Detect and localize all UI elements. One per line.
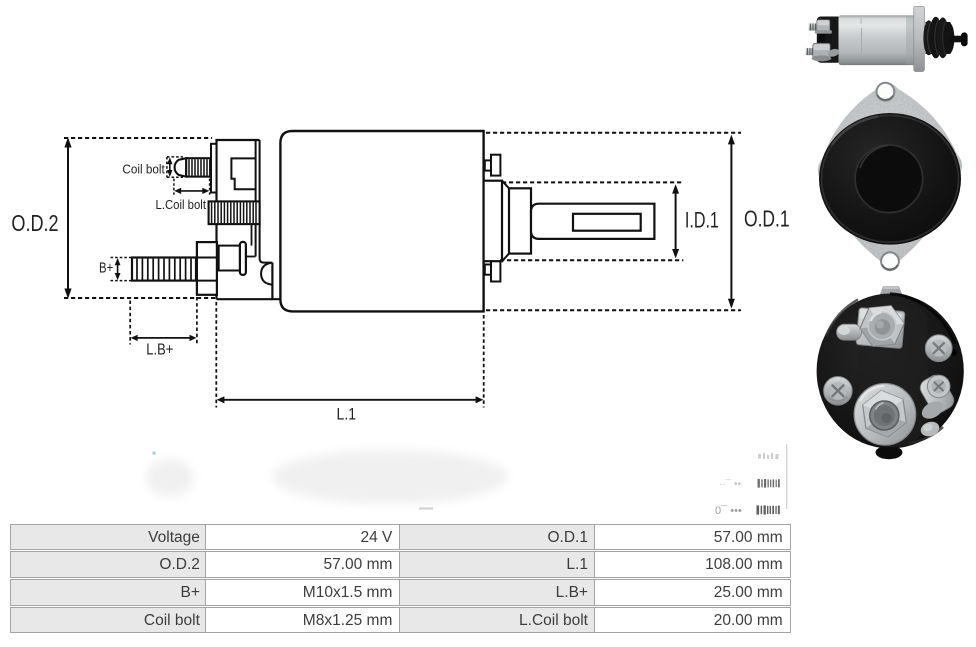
svg-text:0¯ •••: 0¯ ••• <box>715 505 742 517</box>
plunger cup arc <box>261 263 272 285</box>
dimension L.Coil bolt arrow <box>177 190 208 192</box>
photo3 top bolt head <box>868 312 896 340</box>
dimension B+ dashed extension lines <box>111 258 132 281</box>
plate chamfer top <box>502 181 509 189</box>
coil bolt stud shank <box>186 158 211 176</box>
svg-text:O.D.1: O.D.1 <box>744 205 790 231</box>
coil bolt stud nose <box>175 158 187 176</box>
svg-text:I.D.1: I.D.1 <box>685 208 719 233</box>
B+ terminal pin <box>240 242 246 275</box>
plate chamfer bottom <box>502 254 509 262</box>
terminal boss bottom stem <box>485 265 491 275</box>
svg-text:L.B+: L.B+ <box>146 342 173 359</box>
photo3 top bolt hex <box>855 298 908 354</box>
photo3 black round body <box>817 294 964 449</box>
photo3 bracket screw <box>927 375 950 398</box>
svg-text:O.D.2: O.D.2 <box>11 210 58 236</box>
photo3 right bracket <box>917 372 957 416</box>
photo3 washer tab <box>919 398 946 422</box>
spec table row 1 <box>10 524 790 551</box>
plunger cup wall <box>271 263 273 300</box>
photo1 bottom terminal stud <box>806 48 814 55</box>
photo3 top bolt tip <box>880 286 902 294</box>
dimension O.D.1 top dashed line <box>486 132 741 134</box>
svg-text:Coil bolt: Coil bolt <box>122 163 165 177</box>
dimension L.1 arrow <box>220 399 481 401</box>
end cap outer wall with lip <box>260 140 273 263</box>
watermark blue dot <box>153 452 156 455</box>
dimension B+ arrow <box>117 260 119 278</box>
svg-text:L.1: L.1 <box>337 406 357 424</box>
dimension O.D.2 top extension dashed line <box>64 137 212 139</box>
photo2 flange ear hole bottom <box>881 252 899 270</box>
end cap bracket outline <box>217 140 260 299</box>
dimension I.D.1 top dashed line <box>502 181 683 183</box>
spec table row 4 <box>10 607 790 634</box>
L.Coil bolt thread stud <box>209 201 260 224</box>
watermark ghost column line <box>786 444 788 509</box>
dimension L.Coil bolt extension dashed lines <box>174 179 210 195</box>
svg-text:L.Coil bolt: L.Coil bolt <box>156 198 207 212</box>
B+ stud threads <box>137 259 191 280</box>
WATERMARK <box>146 444 787 517</box>
photo1 bottom terminal nut <box>813 43 830 59</box>
watermark faint row 1 marks <box>758 453 779 459</box>
B+ threaded stud <box>132 258 196 281</box>
coil bolt mount tab <box>211 144 217 193</box>
photo3 silver plate behind top bolt <box>856 308 905 349</box>
photo3 bottom bolt washer <box>854 384 916 446</box>
dimension O.D.1 bottom dashed line <box>486 309 741 311</box>
PHOTOS <box>806 6 968 71</box>
photo1 flange <box>914 6 925 71</box>
watermark dash <box>419 508 433 510</box>
photo2 inner circle <box>855 145 923 213</box>
photo1 pin <box>950 36 963 43</box>
dimension L.1 extension dashed lines <box>216 302 483 408</box>
dimension O.D.2 arrow line <box>67 142 69 294</box>
terminal boss top stem <box>485 160 491 170</box>
coil bolt threads <box>189 159 210 175</box>
photo2 flange ear hole top <box>877 83 895 101</box>
dimension coil bolt diameter dashed box <box>167 157 183 177</box>
photo3 left screw <box>824 377 853 406</box>
end cap bracket fill <box>215 139 260 300</box>
end cap bottom line <box>217 298 281 300</box>
svg-text:··¯ ••: ··¯ •• <box>719 478 741 490</box>
photo1 top terminal stud <box>809 23 817 30</box>
photo3 bottom bolt center <box>870 401 899 430</box>
stud connector line <box>251 224 253 246</box>
end cap Z cutout <box>231 158 255 189</box>
pin to wall line <box>246 256 256 258</box>
photo3 bottom tip <box>876 446 903 460</box>
terminal boss top cap <box>491 155 500 176</box>
terminal boss bottom cap <box>491 260 500 282</box>
shaft slot <box>573 214 641 231</box>
photo2 black cap <box>819 113 961 245</box>
photo2 diamond flange <box>818 83 962 268</box>
photo3 left silver tab <box>837 324 862 340</box>
photo1 top terminal nut <box>817 20 830 33</box>
dimension I.D.1 arrow <box>675 187 677 257</box>
dimension O.D.1 arrow <box>730 137 732 306</box>
photo1 black studs <box>819 34 826 42</box>
B+ hex nut <box>197 242 217 295</box>
photo1 rubber boot <box>926 22 951 54</box>
end cap inner wall <box>255 140 257 256</box>
dimension L.B+ arrow <box>133 337 194 339</box>
dimension I.D.1 bottom dashed line <box>500 259 683 261</box>
dimension coil bolt arrow <box>169 160 171 175</box>
photo1 rear black cap <box>817 17 842 63</box>
spec table row 3 <box>10 579 790 606</box>
photo1 cylinder body <box>839 15 916 65</box>
photo3 bottom bolt hex <box>861 388 908 440</box>
dimension L.B+ extension dashed lines <box>130 297 197 345</box>
bearing plate <box>484 181 502 262</box>
watermark blob left <box>146 459 194 497</box>
watermark row 2 barcode <box>758 479 780 488</box>
B+ washer block <box>219 246 240 271</box>
L.Coil bolt stud threads <box>212 202 256 223</box>
photo1 cylinder seam <box>861 28 863 58</box>
pinion boss <box>509 188 531 253</box>
dimension O.D.2 bottom extension dashed line <box>64 297 217 299</box>
watermark row 3 barcode <box>757 505 780 514</box>
photo3 small hole right <box>950 349 957 356</box>
solenoid body cylinder <box>280 131 483 311</box>
spec table row 2 <box>10 551 790 578</box>
svg-text:B+: B+ <box>99 261 113 277</box>
photo3 right screw <box>925 335 952 362</box>
shaft <box>531 204 654 239</box>
watermark blob center <box>272 450 508 504</box>
